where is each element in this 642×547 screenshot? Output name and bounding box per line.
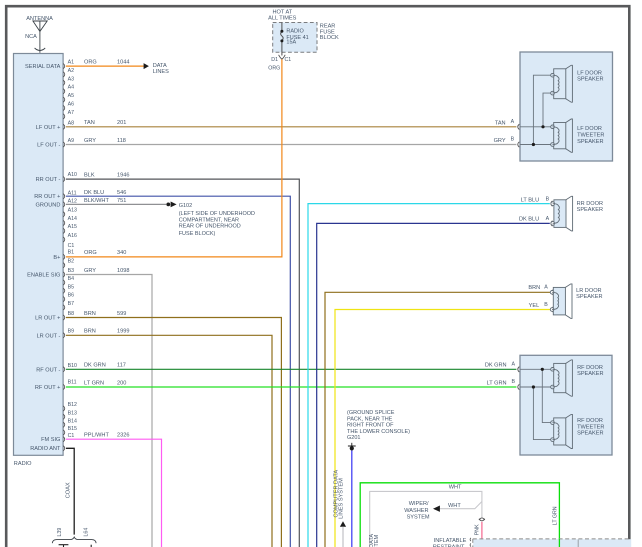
svg-text:LF OUT +: LF OUT + bbox=[36, 125, 61, 131]
svg-text:LINES SYSTEM: LINES SYSTEM bbox=[374, 534, 380, 547]
RR connector arcs bbox=[551, 201, 553, 206]
svg-text:DK GRN: DK GRN bbox=[485, 363, 507, 369]
svg-text:1999: 1999 bbox=[117, 329, 129, 335]
svg-text:A9: A9 bbox=[68, 138, 75, 144]
svg-text:B4: B4 bbox=[68, 276, 75, 282]
svg-text:A5: A5 bbox=[68, 93, 75, 99]
wire B1 ORG to fuse bbox=[66, 59, 282, 257]
svg-text:BRN: BRN bbox=[84, 329, 96, 335]
svg-text:LINES: LINES bbox=[153, 69, 169, 75]
svg-text:B: B bbox=[544, 302, 548, 308]
svg-text:117: 117 bbox=[117, 363, 126, 369]
svg-text:ALL TIMES: ALL TIMES bbox=[268, 16, 297, 22]
wire C1 PPL/WHT FM SIG bbox=[66, 439, 162, 547]
svg-text:A6: A6 bbox=[68, 102, 75, 108]
svg-text:B14: B14 bbox=[68, 418, 77, 424]
svg-text:ORG: ORG bbox=[84, 60, 97, 66]
svg-text:GROUND: GROUND bbox=[36, 202, 61, 208]
svg-text:LR OUT +: LR OUT + bbox=[35, 316, 60, 322]
fuse block dashed box bbox=[273, 23, 317, 53]
svg-text:WIPER/: WIPER/ bbox=[409, 501, 429, 507]
svg-text:201: 201 bbox=[117, 120, 126, 126]
LF door speaker box bbox=[520, 52, 613, 161]
svg-text:SERIAL DATA: SERIAL DATA bbox=[25, 64, 61, 70]
svg-text:A14: A14 bbox=[68, 216, 77, 222]
svg-text:GRY: GRY bbox=[84, 268, 96, 274]
svg-text:DK BLU: DK BLU bbox=[84, 190, 104, 196]
svg-text:RR OUT -: RR OUT - bbox=[36, 177, 61, 183]
connector brackets bbox=[469, 538, 472, 541]
wire B10 DK GRN bbox=[66, 368, 517, 370]
svg-text:SPEAKER: SPEAKER bbox=[577, 139, 603, 145]
svg-text:SYSTEM: SYSTEM bbox=[407, 514, 430, 520]
svg-text:L64: L64 bbox=[83, 528, 89, 537]
svg-text:2326: 2326 bbox=[117, 433, 129, 439]
svg-text:RADIO: RADIO bbox=[286, 29, 304, 35]
fuse element bbox=[281, 23, 284, 56]
svg-text:LT BLU: LT BLU bbox=[521, 197, 539, 203]
svg-text:LINES SYSTEM: LINES SYSTEM bbox=[339, 478, 345, 519]
svg-text:WHT: WHT bbox=[448, 503, 461, 509]
svg-text:DK BLU: DK BLU bbox=[519, 217, 539, 223]
wire A8 TAN bbox=[66, 126, 517, 128]
svg-text:BLK: BLK bbox=[84, 173, 95, 179]
svg-text:LT GRN: LT GRN bbox=[487, 380, 507, 386]
green harness box bbox=[360, 483, 559, 547]
svg-text:B2: B2 bbox=[68, 259, 75, 265]
svg-text:BRN: BRN bbox=[528, 285, 540, 291]
svg-text:ENABLE SIG: ENABLE SIG bbox=[27, 273, 60, 279]
wire B9 BRN bbox=[66, 335, 272, 547]
arrow wiper bbox=[433, 506, 440, 512]
svg-text:B15: B15 bbox=[68, 426, 77, 432]
svg-text:LT GRN: LT GRN bbox=[553, 506, 559, 525]
svg-text:A: A bbox=[511, 119, 515, 125]
wire A1 ORG serial data bbox=[66, 65, 144, 67]
svg-text:340: 340 bbox=[117, 250, 126, 256]
svg-text:COAX: COAX bbox=[65, 482, 71, 498]
wire DK BLU bbox=[317, 223, 550, 547]
svg-text:1946: 1946 bbox=[117, 173, 129, 179]
svg-text:B: B bbox=[511, 137, 515, 143]
wire computer data gray bbox=[342, 527, 344, 547]
wire B8 BRN bbox=[66, 318, 282, 547]
svg-text:1098: 1098 bbox=[117, 268, 129, 274]
svg-text:THE LOWER CONSOLE): THE LOWER CONSOLE) bbox=[347, 429, 410, 435]
wire COAX bbox=[66, 448, 74, 534]
svg-text:B8: B8 bbox=[68, 311, 75, 317]
svg-text:C1: C1 bbox=[68, 243, 75, 249]
svg-text:PPL/WHT: PPL/WHT bbox=[84, 433, 109, 439]
radio pin number labels bbox=[68, 60, 77, 440]
gray pin in dashed box bbox=[577, 540, 579, 547]
svg-text:GRY: GRY bbox=[84, 138, 96, 144]
svg-text:L39: L39 bbox=[57, 528, 63, 537]
svg-text:B6: B6 bbox=[68, 293, 75, 299]
svg-text:B1: B1 bbox=[68, 250, 75, 256]
svg-text:A12: A12 bbox=[68, 198, 77, 204]
svg-text:(LEFT SIDE OF UNDERHOOD: (LEFT SIDE OF UNDERHOOD bbox=[179, 211, 255, 217]
LR connector arcs bbox=[552, 290, 554, 295]
svg-text:YEL: YEL bbox=[529, 303, 540, 309]
RF tweeter symbol bbox=[551, 414, 573, 448]
svg-text:B3: B3 bbox=[68, 268, 75, 274]
svg-text:A16: A16 bbox=[68, 233, 77, 239]
svg-text:ANTENNA: ANTENNA bbox=[26, 16, 53, 22]
wire BRN bbox=[325, 292, 551, 547]
LF door speaker symbol bbox=[551, 65, 573, 102]
svg-text:FM SIG: FM SIG bbox=[41, 437, 60, 443]
svg-text:A7: A7 bbox=[68, 110, 75, 116]
svg-text:LR OUT -: LR OUT - bbox=[37, 333, 61, 339]
svg-text:WASHER: WASHER bbox=[404, 508, 428, 514]
ground splice note G201 bbox=[347, 410, 410, 441]
svg-text:RF DOOR: RF DOOR bbox=[577, 418, 603, 424]
svg-text:TAN: TAN bbox=[84, 120, 95, 126]
svg-text:B: B bbox=[512, 379, 516, 385]
svg-text:LT GRN: LT GRN bbox=[84, 380, 104, 386]
svg-text:A8: A8 bbox=[68, 120, 75, 126]
svg-text:B7: B7 bbox=[68, 301, 75, 307]
svg-text:LF OUT -: LF OUT - bbox=[37, 143, 60, 149]
svg-text:ORG: ORG bbox=[268, 66, 280, 72]
wire A9 GRY bbox=[66, 144, 517, 146]
svg-text:A1: A1 bbox=[68, 60, 75, 66]
connector D1/C1 arcs bbox=[279, 55, 286, 59]
svg-text:ORG: ORG bbox=[84, 250, 97, 256]
svg-text:REAR OF UNDERHOOD: REAR OF UNDERHOOD bbox=[179, 224, 241, 230]
svg-text:118: 118 bbox=[117, 138, 126, 144]
svg-text:RIGHT FRONT OF: RIGHT FRONT OF bbox=[347, 422, 394, 428]
LF connector arcs bbox=[518, 124, 520, 129]
svg-text:LF DOOR: LF DOOR bbox=[577, 126, 602, 132]
svg-text:RADIO: RADIO bbox=[14, 461, 32, 467]
svg-text:1044: 1044 bbox=[117, 60, 129, 66]
svg-text:BLOCK: BLOCK bbox=[320, 35, 339, 41]
svg-text:COMPARTMENT, NEAR: COMPARTMENT, NEAR bbox=[179, 217, 239, 223]
svg-text:TWEETER: TWEETER bbox=[577, 424, 604, 430]
wire B3 GRY enable bbox=[66, 275, 152, 547]
svg-text:RR OUT +: RR OUT + bbox=[34, 194, 60, 200]
svg-text:FUSE BLOCK): FUSE BLOCK) bbox=[179, 231, 216, 237]
wire color/value labels bbox=[84, 60, 129, 439]
svg-text:PNK: PNK bbox=[475, 524, 481, 535]
svg-text:B9: B9 bbox=[68, 328, 75, 334]
svg-text:NCA: NCA bbox=[25, 34, 37, 40]
svg-text:B+: B+ bbox=[53, 255, 60, 261]
antenna module stubs bbox=[59, 545, 92, 547]
wiper washer branch WHT bbox=[440, 502, 482, 509]
svg-text:B5: B5 bbox=[68, 284, 75, 290]
svg-text:751: 751 bbox=[117, 198, 126, 204]
svg-text:RF DOOR: RF DOOR bbox=[577, 365, 603, 371]
svg-text:B12: B12 bbox=[68, 402, 77, 408]
svg-text:BLK/WHT: BLK/WHT bbox=[84, 198, 109, 204]
svg-text:SPEAKER: SPEAKER bbox=[577, 430, 603, 436]
svg-text:TAN: TAN bbox=[495, 121, 506, 127]
computer data arrow bbox=[340, 521, 346, 527]
svg-text:G201: G201 bbox=[347, 435, 360, 441]
svg-text:DK GRN: DK GRN bbox=[84, 363, 106, 369]
svg-text:200: 200 bbox=[117, 380, 126, 386]
RF internal wires bbox=[520, 369, 551, 439]
radio pin connector arcs bbox=[63, 64, 64, 451]
svg-text:A: A bbox=[546, 216, 550, 222]
svg-text:B: B bbox=[546, 197, 550, 203]
svg-text:RADIO ANT: RADIO ANT bbox=[30, 446, 61, 452]
svg-text:A3: A3 bbox=[68, 76, 75, 82]
svg-text:546: 546 bbox=[117, 190, 126, 196]
svg-text:A4: A4 bbox=[68, 85, 75, 91]
svg-text:SPEAKER: SPEAKER bbox=[577, 371, 603, 377]
RF door speaker symbol bbox=[551, 360, 573, 396]
LF internal wires bbox=[520, 75, 551, 144]
svg-text:15A: 15A bbox=[286, 40, 296, 46]
LF tweeter symbol bbox=[551, 119, 573, 152]
svg-text:A13: A13 bbox=[68, 208, 77, 214]
svg-text:A15: A15 bbox=[68, 224, 77, 230]
green vertical into box bbox=[558, 539, 560, 547]
wire A10 BLK bbox=[66, 179, 299, 547]
RF connector arcs bbox=[518, 367, 520, 372]
svg-text:WHT: WHT bbox=[449, 485, 462, 491]
gray WHT wire box bbox=[370, 491, 482, 547]
svg-text:RF OUT +: RF OUT + bbox=[35, 385, 61, 391]
antenna bbox=[33, 21, 47, 53]
svg-text:B10: B10 bbox=[68, 363, 77, 369]
svg-text:SPEAKER: SPEAKER bbox=[577, 77, 603, 83]
svg-text:A: A bbox=[512, 361, 516, 367]
radio block bbox=[14, 54, 64, 456]
radio left pin labels bbox=[25, 64, 61, 452]
brace under coax bbox=[52, 537, 96, 543]
LR door speaker symbol bbox=[550, 284, 572, 319]
inflatable restraint dashed box bbox=[473, 539, 631, 547]
svg-text:G102: G102 bbox=[179, 203, 192, 209]
svg-text:B11: B11 bbox=[68, 380, 77, 386]
wire A12 BLK/WHT to G102 bbox=[66, 203, 166, 205]
svg-text:INFLATABLE: INFLATABLE bbox=[434, 538, 467, 544]
wire YEL bbox=[335, 310, 551, 547]
svg-text:D1: D1 bbox=[271, 57, 278, 63]
svg-text:RF OUT -: RF OUT - bbox=[36, 367, 60, 373]
wire B11 LT GRN bbox=[66, 386, 517, 388]
arrow data lines bbox=[144, 63, 149, 69]
wire G201 blue bbox=[351, 451, 353, 547]
svg-text:599: 599 bbox=[117, 311, 126, 317]
svg-text:C1: C1 bbox=[285, 57, 292, 63]
G102 splice dot and arrow bbox=[166, 203, 170, 207]
G102 location note bbox=[179, 211, 255, 237]
svg-text:SPEAKER: SPEAKER bbox=[576, 294, 602, 300]
wire A11 DK BLU bbox=[66, 196, 290, 547]
svg-text:BRN: BRN bbox=[84, 311, 96, 317]
svg-text:SPEAKER: SPEAKER bbox=[577, 207, 603, 213]
RF door speaker box bbox=[520, 355, 612, 455]
svg-text:TWEETER: TWEETER bbox=[577, 132, 604, 138]
svg-text:A10: A10 bbox=[68, 172, 77, 178]
svg-text:A: A bbox=[544, 284, 548, 290]
svg-text:C1: C1 bbox=[68, 433, 75, 439]
svg-text:B13: B13 bbox=[68, 410, 77, 416]
wire PNK bbox=[481, 522, 483, 547]
svg-text:GRY: GRY bbox=[494, 138, 506, 144]
connector arcs PNK bbox=[479, 518, 485, 520]
wire LT BLU bbox=[308, 204, 550, 547]
svg-text:(GROUND SPLICE: (GROUND SPLICE bbox=[347, 410, 395, 416]
ground symbol G201 bbox=[348, 443, 356, 446]
svg-text:A2: A2 bbox=[68, 68, 75, 74]
RR door speaker symbol bbox=[551, 196, 573, 231]
